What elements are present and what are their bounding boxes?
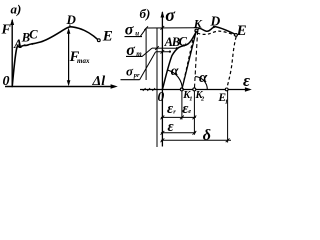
svg-text:F: F: [1, 23, 12, 38]
svg-text:K: K: [193, 17, 203, 31]
svg-text:Δl: Δl: [92, 74, 106, 89]
svg-text:max: max: [77, 57, 90, 65]
svg-text:α: α: [199, 70, 208, 86]
svg-text:E: E: [236, 23, 247, 39]
svg-text:D: D: [210, 13, 221, 28]
svg-text:δ: δ: [203, 127, 211, 144]
svg-text:ε: ε: [243, 71, 250, 90]
svg-text:D: D: [66, 12, 77, 27]
svg-text:а): а): [11, 2, 22, 17]
svg-text:1: 1: [189, 96, 192, 103]
svg-text:E: E: [102, 29, 113, 45]
svg-text:1: 1: [225, 98, 228, 105]
svg-text:σ: σ: [165, 5, 176, 25]
svg-text:0: 0: [3, 74, 10, 89]
svg-text:e: e: [188, 108, 191, 115]
svg-text:ε: ε: [168, 119, 175, 135]
svg-text:б): б): [140, 6, 151, 21]
svg-text:C: C: [179, 34, 188, 48]
svg-text:C: C: [29, 28, 38, 42]
svg-text:0: 0: [158, 89, 165, 104]
svg-text:pr: pr: [133, 72, 140, 79]
svg-text:α: α: [171, 64, 179, 79]
